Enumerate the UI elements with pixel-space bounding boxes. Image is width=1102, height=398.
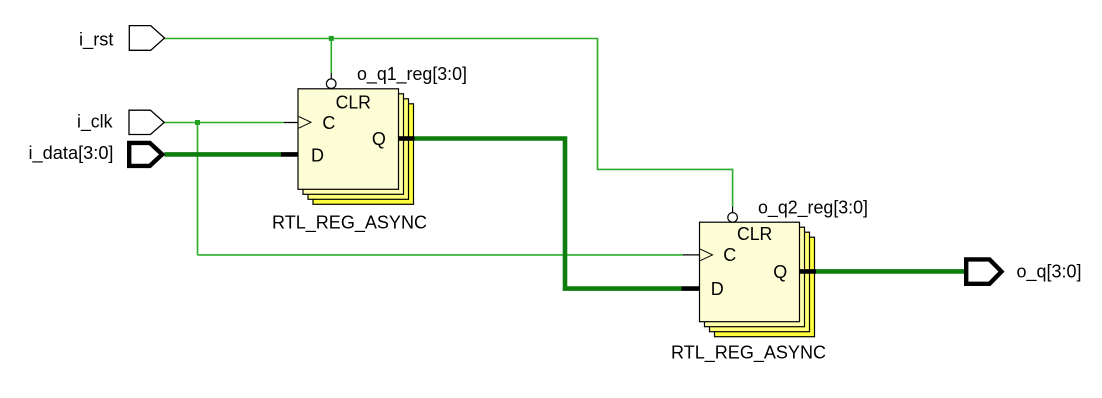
U2 pin label Q <box>773 262 787 282</box>
wire i_rst branch to U1 CLR <box>330 39 332 74</box>
svg-text:Q: Q <box>773 262 787 282</box>
svg-text:i_clk: i_clk <box>77 112 113 133</box>
port label i_data[3:0] <box>29 143 114 164</box>
junction on i_clk net <box>195 120 200 125</box>
U1 clock triangle <box>299 116 311 128</box>
wire net i_rst <box>164 39 732 207</box>
svg-text:o_q[3:0]: o_q[3:0] <box>1017 261 1082 282</box>
svg-text:RTL_REG_ASYNC: RTL_REG_ASYNC <box>272 212 427 233</box>
U1 CLR bubble <box>326 79 336 89</box>
wire i_clk to U2 C <box>198 254 684 256</box>
svg-text:C: C <box>322 113 335 133</box>
svg-text:C: C <box>723 245 736 265</box>
junction on i_rst net <box>329 36 334 41</box>
port label i_rst <box>79 30 114 51</box>
port label o_q[3:0] <box>1017 261 1082 282</box>
input port i_clk <box>129 110 164 134</box>
pin stub U1 D <box>281 152 298 157</box>
pin stub U2 D <box>682 286 700 291</box>
svg-text:CLR: CLR <box>336 92 371 112</box>
U1 pin label CLR <box>336 92 371 112</box>
input port i_rst <box>129 26 164 51</box>
U1 pin label C <box>322 113 335 133</box>
U2 type label RTL_REG_ASYNC <box>671 343 826 364</box>
U2 clock triangle <box>700 249 712 261</box>
pin stub U2 Q <box>800 269 817 274</box>
svg-text:i_data[3:0]: i_data[3:0] <box>29 143 114 164</box>
U1 pin label D <box>311 146 324 166</box>
pin stub U2 CLR <box>732 207 734 213</box>
svg-text:RTL_REG_ASYNC: RTL_REG_ASYNC <box>671 343 826 364</box>
svg-text:i_rst: i_rst <box>79 30 114 51</box>
port label i_clk <box>77 112 113 133</box>
register U1 body <box>298 89 399 190</box>
pin stub U1 C <box>284 122 298 124</box>
U1 pin label Q <box>372 129 386 149</box>
svg-text:CLR: CLR <box>737 224 772 244</box>
pin stub U1 CLR <box>330 73 332 79</box>
bus net q1 from U1 Q to U2 D <box>415 139 682 289</box>
U2 pin label D <box>711 279 724 299</box>
register U1 stack layers <box>303 94 414 205</box>
U2 pin label CLR <box>737 224 772 244</box>
svg-text:o_q1_reg[3:0]: o_q1_reg[3:0] <box>357 64 467 85</box>
register U2 stack layers <box>705 227 815 337</box>
wire net i_clk <box>164 122 284 124</box>
pin stub U1 Q <box>399 136 415 141</box>
U2 CLR bubble <box>728 213 738 223</box>
U1 instance label o_q1_reg[3:0] <box>357 64 467 85</box>
register U2 body <box>700 222 800 322</box>
svg-text:D: D <box>311 146 324 166</box>
U2 instance label o_q2_reg[3:0] <box>758 197 868 218</box>
svg-text:D: D <box>711 279 724 299</box>
wire i_clk branch down <box>197 123 199 255</box>
U2 pin label C <box>723 245 736 265</box>
input bus port i_data[3:0] <box>129 143 162 166</box>
output bus port o_q[3:0] <box>966 259 1001 283</box>
U1 type label RTL_REG_ASYNC <box>272 212 427 233</box>
pin stub U2 C <box>683 254 700 256</box>
svg-text:o_q2_reg[3:0]: o_q2_reg[3:0] <box>758 197 868 218</box>
bus net o_q <box>816 269 965 274</box>
svg-text:Q: Q <box>372 129 386 149</box>
bus net i_data <box>164 152 281 157</box>
